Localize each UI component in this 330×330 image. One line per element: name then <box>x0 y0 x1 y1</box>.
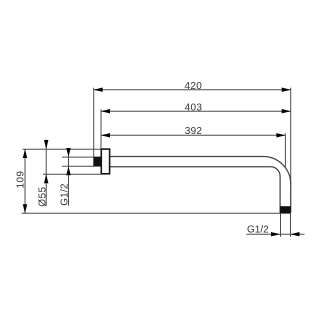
svg-text:G1/2: G1/2 <box>247 224 269 235</box>
svg-text:403: 403 <box>185 102 203 113</box>
svg-text:420: 420 <box>185 81 203 92</box>
svg-text:109: 109 <box>16 171 27 189</box>
svg-text:G1/2: G1/2 <box>59 183 70 206</box>
svg-text:392: 392 <box>185 126 203 137</box>
svg-text:Ø55: Ø55 <box>38 186 49 206</box>
